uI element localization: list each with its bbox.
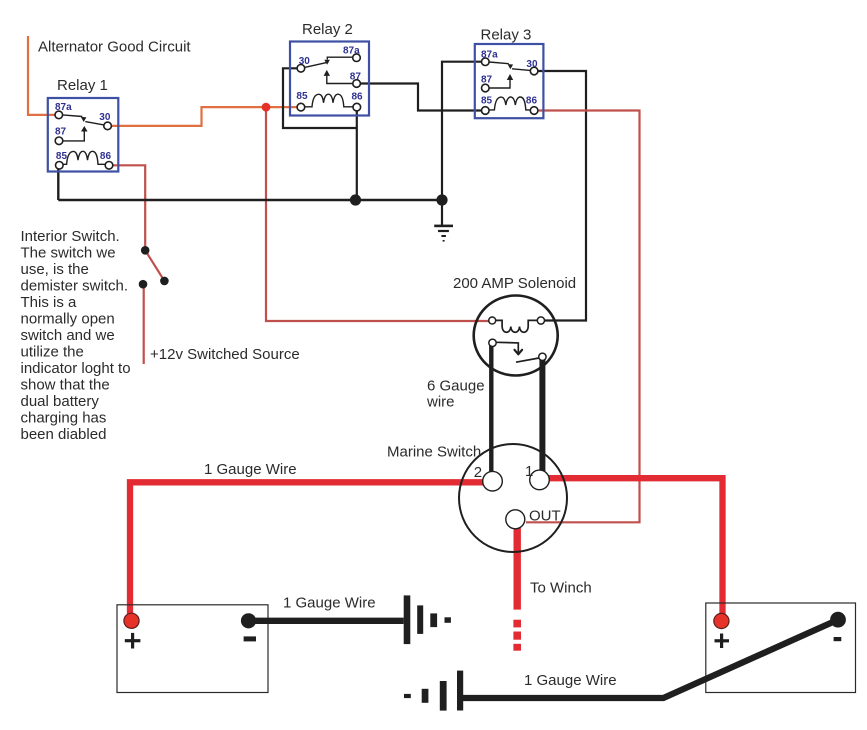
svg-text:+12v Switched Source: +12v Switched Source	[150, 346, 300, 363]
wire: solenoid to marine switch terminal 2 (6 gauge black)	[489, 343, 493, 474]
svg-text:1 Gauge Wire: 1 Gauge Wire	[283, 595, 376, 612]
svg-text:30: 30	[299, 56, 311, 67]
svg-text:1 Gauge Wire: 1 Gauge Wire	[204, 461, 297, 478]
solenoid lower-right terminal	[539, 353, 546, 360]
wire: interior switch to +12v switched source (red)	[143, 284, 145, 364]
wire: marine switch OUT down to winch (red thick)	[514, 528, 521, 610]
solenoid contact arm with down arrow	[496, 342, 522, 354]
right battery - mark	[834, 637, 842, 641]
svg-text:switch and we: switch and we	[21, 327, 115, 344]
relay R1 pin 85 terminal	[56, 162, 64, 170]
svg-text:200 AMP Solenoid: 200 AMP Solenoid	[453, 275, 576, 292]
left battery box	[117, 605, 268, 693]
right battery - terminal	[830, 612, 846, 628]
relay R1 blade contact 87a-30 with arrow	[63, 115, 104, 125]
wire: Relay 1 pin 30 to Relay 2 pin 85 (orange)	[111, 107, 298, 126]
svg-text:Interior Switch.: Interior Switch.	[21, 228, 120, 245]
wire: left battery - to chassis ground (1 gauge black thick)	[251, 618, 404, 624]
relay R2 pin 87 terminal	[353, 80, 361, 88]
svg-text:85: 85	[481, 95, 493, 106]
svg-text:demister switch.: demister switch.	[21, 278, 129, 295]
wire: Relay 3 pin 86 to marine switch OUT (red thin)	[526, 111, 640, 523]
svg-text:The switch we: The switch we	[21, 245, 116, 262]
svg-text:use, is the: use, is the	[21, 261, 89, 278]
svg-text:87: 87	[481, 75, 493, 86]
wire: marine switch terminal 1 to right battery + (1 gauge red thick)	[548, 478, 723, 617]
svg-text:This is a: This is a	[21, 294, 78, 311]
solenoid coil right terminal	[537, 317, 544, 324]
relay R1 pin 86 terminal	[105, 162, 113, 170]
svg-text:85: 85	[296, 91, 308, 102]
relay R3 pin 85 terminal	[482, 107, 490, 115]
svg-text:6 Gauge: 6 Gauge	[427, 378, 485, 395]
wire: Relay 2 pin 87 to Relay 3 pin 85 (black)	[360, 84, 482, 111]
relay R2 pin 87 branch with up arrow	[324, 70, 353, 84]
wire: Relay 1 pin 86 to interior switch (red)	[112, 165, 145, 247]
wire: +12v junction to solenoid coil left terminal (red)	[266, 107, 489, 321]
solenoid coil left terminal	[489, 317, 496, 324]
svg-text:85: 85	[56, 151, 68, 162]
svg-text:charging has: charging has	[21, 410, 107, 427]
chassis ground symbol right of left battery	[404, 595, 451, 644]
wire: Relay 3 pin 30 to solenoid right terminal (black)	[538, 71, 587, 321]
left battery + mark	[125, 633, 141, 649]
svg-text:86: 86	[100, 151, 112, 162]
relay R1 pin labels	[55, 102, 111, 162]
left battery - mark	[244, 636, 256, 641]
wire: Relay 2 pin 30 down and over (black)	[283, 68, 357, 128]
wire: solenoid to marine switch terminal 1 (6 gauge black)	[539, 357, 545, 473]
svg-text:1 Gauge Wire: 1 Gauge Wire	[524, 672, 617, 689]
node: bus junction below Relay 2	[350, 194, 361, 205]
svg-text:been diabled: been diabled	[21, 426, 107, 443]
marine switch terminal 1	[530, 470, 550, 490]
svg-text:normally open: normally open	[21, 311, 115, 328]
svg-text:Relay 1: Relay 1	[57, 77, 108, 94]
svg-text:utilize the: utilize the	[21, 344, 84, 361]
svg-text:30: 30	[99, 112, 111, 123]
interior switch SW1 (open, blade)	[139, 246, 169, 289]
left battery + terminal	[124, 613, 139, 628]
relay R3 pin 30 terminal	[530, 67, 538, 75]
wire: Relay 2 pin 86 to bus junction (black)	[356, 110, 358, 200]
solenoid K1 body circle	[474, 296, 558, 376]
marine switch OUT terminal	[506, 510, 525, 529]
ground symbol (earth) below bus	[434, 200, 453, 242]
svg-text:To Winch: To Winch	[530, 580, 592, 597]
svg-text:87: 87	[350, 72, 362, 83]
svg-text:86: 86	[352, 92, 364, 103]
svg-text:dual battery: dual battery	[21, 393, 100, 410]
svg-text:OUT: OUT	[529, 508, 561, 525]
relay R1 coil 85-86	[64, 151, 106, 164]
solenoid lower-left terminal	[489, 339, 496, 346]
svg-text:30: 30	[526, 59, 538, 70]
relay R1 pin 87 terminal	[55, 137, 63, 145]
relay R3 blade contact 87a-30 with arrow	[489, 62, 530, 70]
relay R3 pin 87 terminal	[482, 84, 490, 92]
svg-text:Marine Switch: Marine Switch	[387, 444, 481, 461]
right battery + terminal	[714, 613, 729, 628]
relay R1 pin 87a terminal	[55, 111, 63, 119]
relay R1 box	[48, 98, 119, 172]
svg-text:86: 86	[526, 96, 538, 107]
wire: winch dashed continuation	[513, 620, 521, 651]
wire: right battery - to chassis ground (1 gauge black thick)	[460, 620, 838, 698]
relay R3 box	[475, 44, 544, 118]
solenoid coil	[496, 320, 538, 332]
label: 6 Gauge wire	[426, 378, 485, 411]
relay R3 pin 86 terminal	[530, 107, 538, 115]
wire: Relay 3 pin 87a to bus junction (black)	[442, 62, 482, 200]
svg-text:1: 1	[525, 463, 533, 480]
left battery - terminal	[241, 613, 256, 628]
svg-text:indicator loght to: indicator loght to	[21, 360, 131, 377]
relay R3 pin 87 branch with up arrow	[489, 74, 513, 88]
relay R3 pin 87a terminal	[482, 58, 490, 66]
svg-text:2: 2	[474, 464, 482, 481]
right battery + mark	[715, 634, 730, 649]
node: +12v junction dot	[262, 103, 271, 112]
relay R3 pin labels	[481, 49, 538, 106]
note: interior switch description	[21, 228, 131, 443]
relay R2 coil 85-86	[305, 94, 353, 107]
svg-text:87a: 87a	[55, 102, 72, 113]
solenoid blade	[516, 358, 539, 362]
svg-text:87a: 87a	[343, 46, 360, 57]
svg-text:87: 87	[55, 127, 67, 138]
node: bus junction below Relay 3	[436, 194, 447, 205]
wire: ground bus (black)	[58, 199, 442, 201]
relay R2 pin labels	[296, 46, 363, 103]
relay R2 box	[290, 42, 369, 116]
svg-text:show that the: show that the	[21, 377, 110, 394]
svg-text:87a: 87a	[481, 49, 498, 60]
relay R2 pin 30 terminal	[297, 65, 305, 73]
chassis ground symbol bottom center	[404, 671, 463, 711]
marine switch body circle	[459, 444, 567, 552]
right battery box	[706, 603, 856, 693]
marine switch terminal 2	[483, 471, 503, 491]
wire: alternator feed to Relay 1 pin 87a (orange)	[28, 36, 56, 115]
svg-text:Alternator Good Circuit: Alternator Good Circuit	[38, 39, 191, 56]
relay R1 pin 30 terminal	[104, 122, 112, 130]
svg-text:wire: wire	[426, 394, 455, 411]
relay R2 blade contact 87a-30 with arrow	[304, 57, 353, 67]
relay R3 coil 85-86	[489, 97, 530, 110]
relay R1 pin 87 branch with up arrow	[63, 126, 88, 141]
relay R2 pin 87a terminal	[353, 54, 361, 62]
relay R2 pin 86 terminal	[353, 103, 361, 111]
wire: Relay 1 pin 85 down to ground bus (black)	[57, 167, 59, 200]
relay R2 pin 85 terminal	[297, 103, 305, 111]
svg-text:Relay 2: Relay 2	[302, 21, 353, 38]
svg-text:Relay 3: Relay 3	[481, 27, 532, 44]
wire: left battery + to marine switch terminal 2 (1 gauge red thick)	[130, 482, 486, 620]
